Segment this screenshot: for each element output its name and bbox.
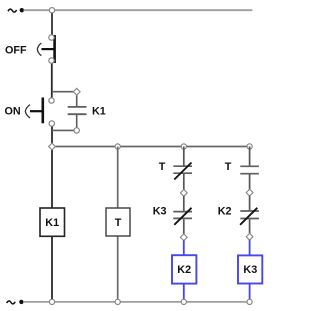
svg-text:OFF: OFF <box>5 44 27 56</box>
svg-text:K2: K2 <box>218 206 232 218</box>
svg-text:T: T <box>159 161 166 173</box>
svg-text:ON: ON <box>5 106 21 118</box>
svg-text:T: T <box>115 217 122 229</box>
svg-text:K2: K2 <box>177 264 191 276</box>
svg-text:K3: K3 <box>153 206 167 218</box>
svg-text:K1: K1 <box>45 217 59 229</box>
svg-text:K3: K3 <box>243 264 257 276</box>
svg-text:T: T <box>225 161 232 173</box>
svg-text:K1: K1 <box>92 105 106 117</box>
